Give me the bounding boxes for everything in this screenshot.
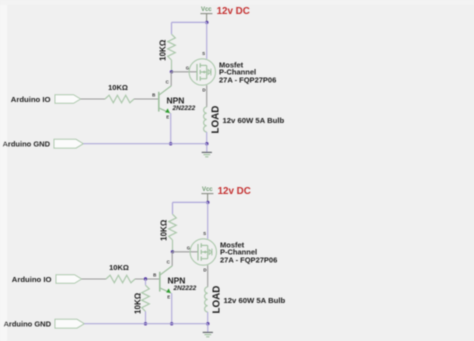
node load/ground junction (circuit 1) xyxy=(205,142,208,145)
wire emitter to ground rail (circuit 2) xyxy=(171,293,173,324)
wire Arduino IO port to base resistor (circuit 2) xyxy=(82,278,107,280)
power Vcc supply symbol (circuit 2) xyxy=(201,187,213,203)
svg-text:LOAD: LOAD xyxy=(212,286,223,314)
wire load to ground rail (circuit 1) xyxy=(206,132,208,144)
svg-text:10KΩ: 10KΩ xyxy=(159,219,168,241)
svg-text:Arduino IO: Arduino IO xyxy=(12,275,52,284)
wire Arduino IO port to base resistor (circuit 1) xyxy=(81,98,106,100)
wire gate node to MOSFET gate (circuit 1) xyxy=(172,71,197,73)
node Vcc junction (circuit 2) xyxy=(206,201,209,204)
svg-text:27A - FQP27P06: 27A - FQP27P06 xyxy=(220,255,277,264)
ground symbol (circuit 1) xyxy=(202,144,212,157)
wire Vcc junction to MOSFET source (circuit 2) xyxy=(207,202,209,239)
wire pull-up resistor to gate node (circuit 2) xyxy=(172,240,174,252)
node load/ground junction (circuit 2) xyxy=(206,322,209,325)
svg-text:NPN: NPN xyxy=(168,276,186,286)
wire Vcc junction to MOSFET source (circuit 1) xyxy=(206,22,208,59)
wire ground rail (circuit 2) xyxy=(84,323,208,325)
transistor Q1a NPN 2N2222 (circuit 1) xyxy=(159,86,171,113)
wire base junction to pull-down resistor (circuit 2) xyxy=(145,279,147,285)
wire ground rail (circuit 1) xyxy=(83,143,207,145)
ground symbol (circuit 2) xyxy=(203,324,213,337)
svg-text:12v DC: 12v DC xyxy=(218,186,251,197)
svg-text:LOAD: LOAD xyxy=(211,106,222,134)
svg-text:Arduino IO: Arduino IO xyxy=(11,95,51,104)
svg-text:12v DC: 12v DC xyxy=(217,6,250,17)
wire pull-down resistor to ground rail (circuit 2) xyxy=(145,311,147,323)
node Vcc junction (circuit 1) xyxy=(205,21,208,24)
resistor R2b 10K base series (circuit 2) xyxy=(106,275,135,283)
wire pull-up resistor to gate node (circuit 1) xyxy=(171,60,173,72)
svg-text:E: E xyxy=(167,295,170,300)
port Arduino IO (circuit 1) xyxy=(55,95,81,104)
transistor Q2b P-channel MOSFET FQP27P06 (circuit 2) xyxy=(190,239,216,265)
wire Vcc rail to pull-up resistor (circuit 2) xyxy=(173,202,208,214)
port Arduino IO (circuit 2) xyxy=(56,275,82,284)
transistor Q2a NPN 2N2222 (circuit 2) xyxy=(160,266,172,293)
svg-text:Arduino GND: Arduino GND xyxy=(4,320,52,329)
svg-text:2N2222: 2N2222 xyxy=(172,105,196,112)
svg-text:NPN: NPN xyxy=(167,96,185,106)
svg-text:10KΩ: 10KΩ xyxy=(108,83,128,92)
wire MOSFET drain to load (circuit 1) xyxy=(206,85,208,107)
svg-text:10KΩ: 10KΩ xyxy=(158,39,167,61)
node emitter/ground junction (circuit 2) xyxy=(170,322,173,325)
svg-text:10KΩ: 10KΩ xyxy=(109,263,129,272)
value label Mosfet P-Channel 27A - FQP27P06 (circuit 2) xyxy=(220,240,277,264)
svg-text:12v 60W 5A Bulb: 12v 60W 5A Bulb xyxy=(223,116,285,125)
resistor R1b 10K base series (circuit 1) xyxy=(105,95,134,103)
svg-text:Vcc: Vcc xyxy=(201,7,212,13)
inductor L2 LOAD (circuit 2) xyxy=(205,287,208,312)
svg-text:G: G xyxy=(186,66,190,71)
svg-text:G: G xyxy=(187,246,191,251)
wire emitter to ground rail (circuit 1) xyxy=(170,113,172,144)
svg-text:12v 60W 5A Bulb: 12v 60W 5A Bulb xyxy=(224,296,286,305)
svg-text:S: S xyxy=(202,51,205,56)
node base junction (circuit 2) xyxy=(144,277,147,280)
resistor R1a 10K pull-up (circuit 1) xyxy=(168,34,176,60)
wire Vcc rail to pull-up resistor (circuit 1) xyxy=(172,22,207,34)
wire load to ground rail (circuit 2) xyxy=(207,312,209,324)
resistor R2a 10K pull-up (circuit 2) xyxy=(169,214,177,240)
svg-text:Arduino GND: Arduino GND xyxy=(3,140,51,149)
port Arduino GND (circuit 2) xyxy=(55,319,84,328)
node pull-down/ground junction (circuit 2) xyxy=(144,322,147,325)
value label Mosfet P-Channel 27A - FQP27P06 (circuit 1) xyxy=(219,60,276,84)
wire base resistor to transistor base (circuit 2) xyxy=(135,278,160,280)
svg-text:2N2222: 2N2222 xyxy=(173,285,197,292)
svg-text:27A - FQP27P06: 27A - FQP27P06 xyxy=(219,75,276,84)
wire gate node down to collector (circuit 1) xyxy=(170,72,172,86)
node emitter/ground junction (circuit 1) xyxy=(169,142,172,145)
port Arduino GND (circuit 1) xyxy=(54,139,83,148)
wire gate node to MOSFET gate (circuit 2) xyxy=(173,251,198,253)
power Vcc supply symbol (circuit 1) xyxy=(200,7,212,23)
svg-text:S: S xyxy=(203,231,206,236)
transistor Q1b P-channel MOSFET FQP27P06 (circuit 1) xyxy=(189,59,215,85)
inductor L1 LOAD (circuit 1) xyxy=(204,107,207,132)
node gate/collector junction (circuit 1) xyxy=(170,70,173,73)
wire MOSFET drain to load (circuit 2) xyxy=(207,265,209,287)
wire gate node down to collector (circuit 2) xyxy=(171,252,173,266)
svg-text:E: E xyxy=(166,115,169,120)
node gate/collector junction (circuit 2) xyxy=(171,250,174,253)
wire base resistor to transistor base (circuit 1) xyxy=(134,98,159,100)
svg-text:10KΩ: 10KΩ xyxy=(133,292,142,314)
svg-text:Vcc: Vcc xyxy=(202,187,213,193)
resistor R2c 10K pull-down (circuit 2) xyxy=(142,285,150,311)
